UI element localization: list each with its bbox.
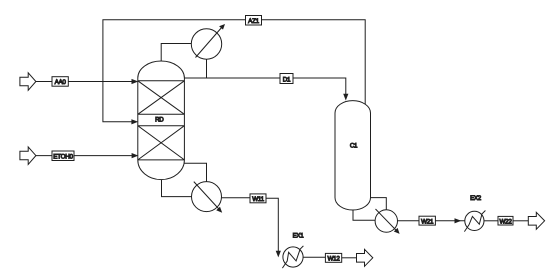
feed source arrow ETOH0 (block arrow): [20, 147, 36, 165]
wire condenser downcomer: [206, 59, 208, 78]
svg-text:W21: W21: [421, 218, 434, 225]
column C1 vessel outline: [335, 101, 371, 210]
wire W11 to EX1: [266, 198, 278, 251]
svg-text:W22: W22: [499, 218, 512, 225]
stream label box W22: [498, 216, 513, 225]
C1 cooler diagonal arrow: [376, 209, 398, 232]
reboiler/cooler circle at RD bottom: [192, 182, 222, 212]
wire D1 to C1 top: [293, 78, 346, 95]
stream label box W21: [419, 216, 435, 225]
wire AA0 feed line right segment: [68, 81, 133, 83]
wire AZ1 left run and drop: [103, 20, 246, 122]
EX1 zigzag: [282, 246, 303, 268]
cooler circle at C1 bottom: [375, 210, 397, 232]
wire RD bottoms downcomer: [162, 180, 192, 197]
wire EX2 to W22: [484, 220, 498, 222]
wire AZ1 recycle: C1 top to RD mid feed: [262, 20, 366, 105]
svg-text:C1: C1: [350, 142, 358, 149]
stream label box AA0: [52, 77, 68, 87]
wire RD side vapor return: [184, 163, 206, 181]
wire EX1 to W12: [303, 256, 325, 258]
condenser K1 circle: [191, 29, 221, 59]
RD packing section 2 (X box): [138, 126, 185, 160]
EX2 zigzag: [464, 211, 485, 232]
arrowhead W11 into EX1: [276, 251, 281, 258]
cooler diagonal arrow: [194, 182, 220, 210]
arrowhead AA0 into RD: [132, 79, 139, 84]
wire W21 to EX2: [435, 220, 464, 222]
column RD vessel outline: [138, 61, 185, 180]
stream label box W12: [325, 253, 341, 262]
RD packing section 1 (X box): [138, 81, 185, 115]
wire AA0 feed line left segment: [36, 81, 52, 83]
svg-text:AA0: AA0: [55, 79, 67, 86]
wire W21 line: [398, 220, 420, 222]
heat exchanger EX2 circle: [465, 211, 484, 230]
arrowhead ETOH0 into RD: [132, 153, 139, 158]
svg-text:W11: W11: [252, 196, 264, 203]
wire C1 side vapor return: [371, 198, 387, 210]
wire RD top riser to condenser: [161, 44, 191, 62]
stream label box W11: [250, 194, 266, 203]
stream label box AZ1: [246, 16, 262, 26]
feed source arrow AA0 (block arrow): [20, 73, 36, 91]
wire ETOH0 feed line right segment: [74, 155, 133, 157]
arrowhead W21 into EX2: [455, 218, 462, 223]
wire C1 bottoms downcomer: [353, 210, 375, 220]
svg-text:EX1: EX1: [293, 232, 305, 239]
stream label box D1: [280, 74, 293, 84]
stream label box ETOH0: [52, 151, 74, 161]
product outlet arrow W22 (block arrow): [528, 212, 544, 229]
wire W12 to outlet: [342, 257, 357, 259]
arrowhead D1 into C1: [343, 94, 348, 101]
svg-text:W12: W12: [327, 256, 340, 263]
wire W22 to outlet: [513, 220, 528, 222]
wire D1 distillate line: [184, 77, 280, 79]
heat exchanger EX1 circle: [283, 247, 303, 267]
wire ETOH0 feed line left segment: [36, 155, 52, 157]
svg-text:EX2: EX2: [470, 195, 482, 202]
svg-text:D1: D1: [283, 76, 291, 83]
wire W11 line: [221, 197, 250, 199]
svg-text:AZ1: AZ1: [248, 18, 259, 25]
svg-text:ETOH0: ETOH0: [53, 154, 73, 161]
svg-text:RD: RD: [155, 116, 164, 123]
product outlet arrow W12 (block arrow): [357, 249, 373, 266]
arrowhead AZ1 into RD: [131, 119, 138, 124]
condenser K1 diagonal arrow: [196, 27, 223, 58]
